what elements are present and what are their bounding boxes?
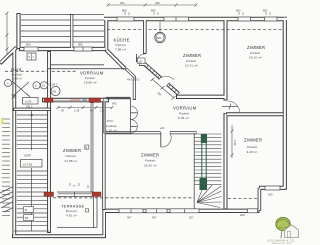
svg-text:Parkett: Parkett [66, 154, 76, 158]
svg-text:22,41 m²: 22,41 m² [185, 64, 198, 68]
svg-text:KÜCHE: KÜCHE [114, 38, 130, 43]
svg-text:7,88 m²: 7,88 m² [115, 48, 126, 52]
svg-text:TERRASSE: TERRASSE [61, 204, 84, 209]
svg-text:Parkett: Parkett [250, 51, 260, 55]
svg-text:1,88 m²: 1,88 m² [12, 77, 23, 81]
svg-text:808: 808 [78, 43, 83, 47]
svg-text:02,84 C: 02,84 C [49, 83, 58, 87]
svg-text:44,5 (B/O): 44,5 (B/O) [127, 78, 140, 82]
svg-text:957: 957 [127, 216, 132, 220]
svg-text:B: B [25, 208, 27, 212]
svg-text:Parkett: Parkett [116, 43, 126, 47]
svg-text:254: 254 [120, 1, 125, 5]
svg-text:Fusbde: Fusbde [106, 124, 117, 128]
svg-text:Parkett: Parkett [186, 59, 196, 63]
svg-text:KOLLMANN & CO: KOLLMANN & CO [268, 238, 295, 242]
svg-text:90: 90 [90, 109, 93, 113]
svg-text:ZW 2: ZW 2 [26, 105, 33, 109]
svg-text:WD: WD [157, 36, 162, 40]
svg-text:ZIMMER: ZIMMER [183, 53, 201, 58]
svg-text:20,16 m²: 20,16 m² [249, 56, 262, 60]
svg-text:18,88 m²: 18,88 m² [84, 81, 97, 85]
svg-text:929: 929 [268, 193, 273, 197]
svg-text:8,08 m²: 8,08 m² [178, 116, 189, 120]
svg-text:1.80: 1.80 [233, 140, 237, 146]
svg-text:Betonpl.: Betonpl. [66, 209, 78, 213]
svg-text:ZIMMER: ZIMMER [141, 153, 159, 158]
svg-text:BF: BF [25, 216, 29, 220]
svg-text:Gard.: Gard. [11, 67, 23, 72]
svg-text:808: 808 [122, 9, 127, 13]
svg-text:VORRAUM: VORRAUM [173, 106, 197, 111]
svg-text:9,28 m²: 9,28 m² [247, 150, 258, 154]
svg-text:B: B [86, 146, 88, 150]
svg-text:ZIMMER: ZIMMER [63, 148, 81, 153]
svg-text:ZWP: ZWP [24, 154, 31, 158]
svg-text:298: 298 [155, 1, 160, 5]
svg-text:ZIMMER: ZIMMER [244, 138, 262, 143]
svg-text:1.38: 1.38 [74, 109, 80, 113]
svg-text:803: 803 [236, 9, 241, 13]
svg-text:Parkett: Parkett [145, 159, 155, 163]
svg-text:927: 927 [189, 216, 194, 220]
svg-text:+0,30: +0,30 [25, 100, 32, 104]
svg-text:21,88 m²: 21,88 m² [65, 159, 78, 163]
svg-text:928: 928 [240, 213, 245, 217]
svg-text:18,36 m²: 18,36 m² [144, 164, 157, 168]
svg-text:1.0: 1.0 [100, 109, 104, 113]
svg-text:10: 10 [42, 84, 45, 88]
svg-text:WC: WC [112, 102, 118, 106]
svg-text:Parkett: Parkett [247, 145, 257, 149]
svg-text:957: 957 [152, 216, 157, 220]
svg-text:Parkett: Parkett [85, 76, 95, 80]
svg-text:809: 809 [26, 43, 31, 47]
svg-text:802: 802 [263, 9, 268, 13]
svg-text:Parkett: Parkett [179, 112, 189, 116]
svg-text:ZIMMER: ZIMMER [247, 45, 265, 50]
svg-text:1,26 m²: 1,26 m² [106, 129, 117, 133]
svg-text:VORRAUM: VORRAUM [80, 71, 104, 76]
svg-text:W2: W2 [52, 90, 57, 94]
svg-text:90: 90 [61, 109, 64, 113]
svg-text:a.B: a.B [160, 126, 164, 130]
svg-text:PVC: PVC [107, 119, 114, 123]
svg-text:809: 809 [151, 9, 156, 13]
svg-text:aB: aB [139, 60, 142, 64]
svg-text:4,81 m²: 4,81 m² [66, 214, 77, 218]
svg-text:+4,765: +4,765 [23, 163, 33, 167]
